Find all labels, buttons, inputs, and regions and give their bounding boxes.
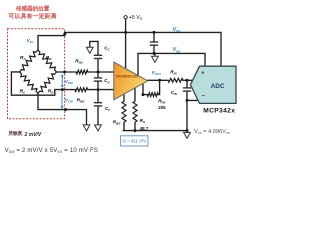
svg-text:MCP6N16-100: MCP6N16-100 — [116, 74, 138, 78]
svg-text:G = 411 V/V: G = 411 V/V — [122, 139, 146, 144]
svg-text:48.7: 48.7 — [140, 126, 149, 131]
svg-text:MCP342x: MCP342x — [203, 108, 235, 115]
svg-text:+: + — [201, 71, 204, 77]
svg-text:−: − — [202, 94, 205, 100]
svg-text:20k: 20k — [158, 105, 166, 110]
svg-text:VDM = 2 mV/V x 5VEX = 10 mV FS: VDM = 2 mV/V x 5VEX = 10 mV FS — [5, 148, 99, 154]
svg-text:: 2 mV/V: : 2 mV/V — [22, 132, 42, 138]
svg-text:ADC: ADC — [211, 83, 225, 90]
